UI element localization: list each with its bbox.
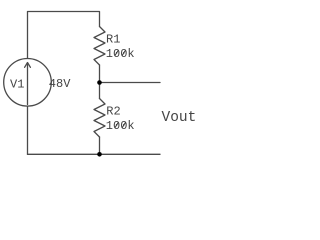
svg-text:R2: R2 <box>106 105 120 119</box>
wire R2 top lead <box>99 83 101 99</box>
node Vout junction dot <box>97 80 102 85</box>
resistor R1 zigzag <box>94 27 105 66</box>
svg-text:V1: V1 <box>10 78 24 92</box>
wire top loop: V1 top to R1 top <box>28 12 100 59</box>
svg-text:100k: 100k <box>106 119 135 133</box>
label R2 value slashed zeros <box>115 122 126 128</box>
node bottom junction dot <box>97 152 102 157</box>
label R1 value slashed zeros <box>115 50 126 56</box>
svg-text:48V: 48V <box>49 77 71 91</box>
svg-text:R1: R1 <box>106 33 120 47</box>
wire R1 bottom lead <box>99 65 101 83</box>
wire V1 bottom to bottom-left corner <box>27 106 29 154</box>
voltage source V1 arrowhead <box>25 63 31 68</box>
svg-text:Vout: Vout <box>162 110 197 126</box>
svg-text:100k: 100k <box>106 47 135 61</box>
resistor R2 zigzag <box>94 99 105 138</box>
wire mid Vout stub <box>100 82 161 84</box>
wire bottom <box>28 153 161 155</box>
voltage source V1 circle <box>4 59 52 107</box>
wire R2 bottom lead <box>99 137 101 154</box>
voltage source V1 arrow shaft <box>27 63 29 105</box>
